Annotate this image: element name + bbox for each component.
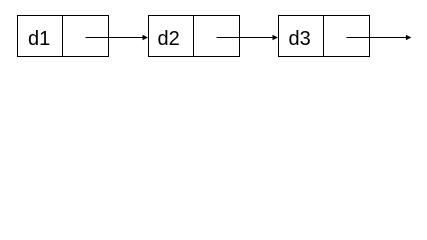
node 2 divider xyxy=(193,16,195,57)
wire arrow node2 to node3 xyxy=(217,37,274,39)
node 3 divider xyxy=(323,16,325,57)
node box 2 xyxy=(149,16,240,57)
node box 3 xyxy=(279,16,370,57)
wire arrow node3 to end xyxy=(347,37,407,39)
svg-text:d2: d2 xyxy=(158,28,180,50)
node 1 divider xyxy=(62,16,64,57)
svg-text:d1: d1 xyxy=(28,28,50,50)
wire arrow node1 to node2 xyxy=(86,37,144,39)
svg-text:d3: d3 xyxy=(289,28,311,50)
node box 1 xyxy=(18,16,109,57)
